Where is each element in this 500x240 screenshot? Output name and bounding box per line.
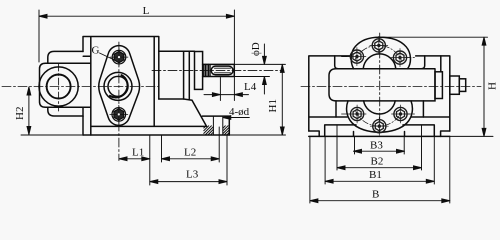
dimension L1 — [119, 135, 150, 185]
pedestal — [354, 132, 405, 137]
body step fillets top — [335, 56, 441, 72]
dimension B1 — [325, 136, 434, 184]
leader 4-od — [223, 116, 250, 120]
top crescent inner hump — [363, 54, 396, 69]
svg-text:L3: L3 — [186, 169, 199, 181]
bolt circle top — [355, 45, 402, 60]
flange bore inner — [108, 76, 128, 96]
shaft — [203, 64, 235, 76]
bottom crescent — [347, 101, 413, 132]
dimension L2 — [162, 127, 220, 162]
body right view — [309, 56, 450, 131]
dimension L3 — [150, 135, 227, 185]
port top plate — [48, 51, 91, 63]
base bottom — [309, 135, 450, 137]
port lower step — [82, 116, 84, 135]
dimension phiD — [234, 44, 285, 94]
svg-text:H1: H1 — [267, 99, 279, 112]
screw G top — [110, 48, 128, 66]
svg-text:B1: B1 — [369, 169, 382, 181]
svg-text:L2: L2 — [184, 146, 196, 158]
top crescent — [351, 37, 410, 69]
dimension H — [382, 37, 493, 136]
svg-text:B2: B2 — [371, 156, 384, 168]
keyway — [211, 66, 233, 75]
base notches — [309, 131, 450, 136]
hatching right — [223, 126, 229, 135]
shaft end tip — [459, 79, 465, 92]
dimension H1 — [229, 64, 285, 135]
port bottom plate — [48, 107, 83, 116]
flange bore outer — [104, 72, 132, 100]
foot plate — [83, 134, 229, 136]
centerline horizontal right view — [301, 86, 481, 88]
svg-text:B: B — [372, 189, 379, 201]
dimension L — [39, 10, 234, 101]
svg-text:H2: H2 — [14, 107, 26, 120]
svg-text:4-ød: 4-ød — [229, 106, 250, 118]
svg-text:L: L — [143, 5, 150, 17]
bearing cap plate — [195, 52, 203, 90]
screw top right — [391, 49, 409, 67]
centerline vertical right view — [379, 33, 381, 133]
screw top left — [348, 48, 366, 66]
screw top middle — [370, 36, 388, 54]
dimension B2 — [337, 125, 422, 170]
port block left view — [40, 63, 91, 107]
screw bottom middle — [370, 117, 388, 135]
bearing housing step — [184, 51, 190, 99]
port inner circle — [47, 75, 71, 99]
shaft step rings — [204, 64, 210, 76]
svg-text:L4: L4 — [244, 81, 257, 93]
body steps bottom — [336, 101, 423, 117]
port outer circle — [39, 67, 78, 106]
leader G — [100, 53, 114, 60]
base top — [325, 125, 435, 136]
svg-text:ϕD: ϕD — [250, 42, 262, 56]
screw bottom right — [392, 105, 410, 123]
centerline flange vertical — [118, 42, 120, 161]
screw bottom left — [348, 105, 366, 123]
svg-text:B3: B3 — [370, 140, 383, 152]
centerline port vertical — [58, 64, 60, 111]
dimension L4 — [204, 78, 249, 101]
port cylinder right view — [329, 69, 435, 101]
dimension B — [310, 136, 450, 203]
bearing housing — [159, 51, 230, 135]
dimension B3 — [354, 136, 405, 154]
screw bottom flange — [110, 105, 128, 123]
centerline shaft axis — [152, 69, 283, 71]
svg-text:L1: L1 — [132, 147, 144, 159]
centerline main axis left view — [2, 86, 159, 88]
hatching left — [204, 126, 214, 135]
bore heavy arc — [110, 75, 128, 97]
svg-text:H: H — [487, 82, 499, 90]
svg-text:G: G — [92, 45, 100, 57]
bottom crescent inner hump — [364, 101, 396, 114]
dimension H2 — [21, 87, 82, 135]
flange outline — [99, 46, 140, 126]
bolt circle bottom — [356, 112, 402, 127]
port step — [435, 72, 442, 99]
foot hole walls — [213, 116, 222, 135]
screw row centerline marks — [342, 57, 417, 114]
keyway inner lines — [215, 68, 231, 73]
shaft end block — [450, 76, 460, 94]
pump body left view — [83, 37, 207, 136]
